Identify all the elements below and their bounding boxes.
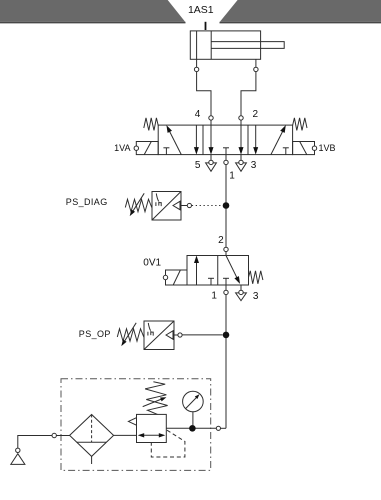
PS_DIAG pilot dotted line: [192, 205, 222, 207]
valve 0V1 body (3/2): [187, 256, 249, 286]
PS_OP actuation arrow: [166, 331, 173, 339]
cylinder right port stub: [255, 59, 257, 67]
wire filter to regulator: [114, 434, 137, 436]
PS_OP box: [144, 321, 174, 350]
svg-text:2: 2: [218, 235, 224, 246]
centre box exhaust arrow 4-5: [210, 125, 212, 148]
PS_OP port circle: [178, 333, 182, 337]
svg-text:2: 2: [253, 109, 259, 120]
PS_OP adjust arrow: [124, 323, 137, 343]
source riser wire: [18, 436, 52, 449]
service unit enclosure (dash-dot): [61, 379, 211, 471]
0V1 left box blocked T: [208, 277, 214, 279]
centre box exhaust arrow 2-3: [240, 125, 242, 148]
cylinder right port circle: [254, 67, 258, 71]
svg-text:3: 3: [253, 291, 259, 302]
regulator relief arrow: [128, 418, 136, 426]
banner underline right: [220, 22, 381, 24]
svg-text:1: 1: [229, 171, 235, 182]
cylinder rod: [211, 42, 284, 49]
junction node PS_OP: [223, 332, 230, 339]
wire into port 4: [210, 120, 212, 125]
port 3 stub: [240, 155, 242, 161]
main wire port1 to 0V1: [225, 165, 227, 248]
outlet node circle: [216, 426, 220, 430]
svg-text:0V1: 0V1: [143, 258, 161, 269]
filter water separator body: [70, 415, 114, 457]
regulator spring: [145, 382, 168, 415]
0V1 return spring: [249, 271, 263, 284]
centre box blocked port 1 T: [223, 147, 229, 149]
PS_DIAG actuation arrow: [173, 201, 180, 209]
gauge junction node: [189, 425, 196, 432]
svg-text:PS_OP: PS_OP: [79, 329, 111, 339]
0V1 port 2 circle: [224, 247, 228, 251]
gauge stem: [192, 412, 194, 426]
PS_OP contact glyph: [148, 323, 153, 336]
PS_DIAG port circle: [187, 203, 191, 207]
filter element (dashed): [91, 415, 93, 443]
right box blocked port T: [283, 147, 289, 149]
cylinder left port circle: [194, 67, 198, 71]
regulator output wire: [166, 427, 216, 429]
left box flow arrow 1-4: [168, 128, 181, 155]
svg-text:1VB: 1VB: [319, 143, 336, 153]
0V1 port 1 stub: [225, 285, 227, 290]
banner right segment: [220, 0, 381, 22]
port 1 node circle: [224, 160, 228, 164]
0V1 right box blocked port 1 T: [223, 277, 229, 279]
svg-text:3: 3: [251, 160, 257, 171]
banner left segment: [0, 0, 185, 22]
right box flow arrow 1-2: [271, 128, 284, 155]
pilot 1VA box: [136, 142, 158, 155]
PS_DIAG adjust arrow: [132, 193, 145, 213]
wire outlet corner: [221, 427, 227, 429]
svg-text:5: 5: [195, 160, 201, 171]
leader tick to cylinder: [205, 22, 207, 30]
pressure gauge: [183, 391, 204, 412]
cylinder piston: [196, 31, 198, 59]
regulator feedback pilot line (dashed): [151, 430, 185, 457]
port 5 stub: [210, 155, 212, 161]
svg-text:1: 1: [211, 291, 217, 302]
regulator flow double arrow: [140, 434, 163, 436]
banner underline left: [0, 22, 186, 24]
inlet node circle: [52, 433, 56, 437]
filter separator baffle: [77, 441, 107, 443]
PS_DIAG contact glyph: [156, 193, 161, 206]
cylinder 1AS1 body: [190, 31, 260, 59]
PS_OP sense line: [182, 334, 222, 336]
regulator 0Z1 body: [137, 414, 167, 442]
0V1 pilot circle: [163, 275, 167, 279]
PS_OP spring: [117, 329, 144, 341]
pilot 1VA solenoid stroke: [144, 142, 151, 155]
cylinder left port stub: [196, 59, 198, 67]
0V1 left box flow arrow 1-2: [196, 262, 198, 285]
wire cylinder right to valve port 2: [241, 72, 256, 116]
svg-text:4: 4: [195, 109, 201, 120]
svg-text:1AS1: 1AS1: [188, 4, 214, 16]
source node circle: [16, 448, 20, 452]
wire cylinder left to valve port 4: [197, 72, 211, 116]
junction node PS_DIAG: [223, 202, 230, 209]
0V1 right box exhaust path 2-3: [226, 256, 239, 282]
compressed air source triangle: [11, 454, 25, 465]
PS_DIAG spring: [125, 199, 152, 211]
wire into filter: [56, 435, 69, 437]
wire into port 2: [240, 120, 242, 125]
pilot 1VA port circle: [134, 146, 138, 150]
0V1 solenoid stroke: [173, 270, 180, 285]
pilot 1VB solenoid stroke: [300, 142, 307, 155]
left box blocked port T: [163, 147, 169, 149]
pilot 1VB box: [293, 142, 315, 155]
valve 1V1 body (5/3): [158, 125, 292, 155]
svg-text:PS_DIAG: PS_DIAG: [66, 197, 108, 207]
0V1 port 3 stub: [240, 285, 242, 290]
exhaust silencer port 5: [206, 163, 217, 171]
node above port 2: [239, 116, 243, 120]
0V1 pilot box: [166, 270, 188, 285]
PS_DIAG box: [152, 192, 181, 221]
node above port 4: [209, 116, 213, 120]
pilot 1VB port circle: [312, 146, 316, 150]
port 1 stub: [225, 155, 227, 161]
right box exhaust arrow: [255, 125, 257, 148]
spring right of valve: [293, 118, 307, 130]
main wire 0V1 to supply: [225, 295, 227, 429]
filter drain stub: [91, 456, 93, 464]
left box exhaust arrow: [195, 125, 197, 148]
0V1 exhaust silencer port 3: [236, 293, 247, 301]
exhaust silencer port 3: [236, 163, 247, 171]
svg-text:1VA: 1VA: [114, 143, 130, 153]
0V1 port 1 circle: [224, 290, 228, 294]
regulator spring adjust arrow: [143, 399, 162, 407]
spring left of valve: [144, 118, 158, 130]
